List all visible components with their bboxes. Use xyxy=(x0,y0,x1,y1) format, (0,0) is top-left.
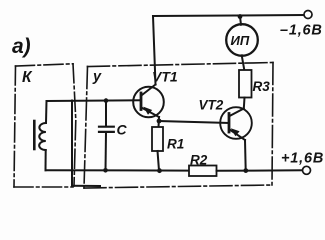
wire bottom rail left xyxy=(46,169,190,171)
node junction top xyxy=(238,14,243,19)
node capacitor bottom xyxy=(103,168,108,173)
box K dash-dot border xyxy=(14,64,76,187)
svg-text:+1,6В: +1,6В xyxy=(281,151,324,167)
terminal -1.6V xyxy=(304,11,312,19)
resistor R3 xyxy=(239,70,252,98)
wire R1 bottom xyxy=(158,151,160,171)
box U dash-dot border xyxy=(84,63,273,189)
transistor VT1 xyxy=(133,85,164,118)
wire bottom rail right xyxy=(217,169,303,172)
terminal +1.6V xyxy=(303,166,311,174)
svg-text:у: у xyxy=(92,69,102,85)
svg-text:R1: R1 xyxy=(167,137,184,152)
wire VT1 collector up xyxy=(153,16,156,85)
wire VT2 base from VT1 emitter xyxy=(159,121,229,123)
wire tank bottom run xyxy=(72,185,100,187)
svg-text:C: C xyxy=(117,122,128,138)
wire R3 to VT2 collector xyxy=(243,98,246,109)
wire meter to R3 xyxy=(242,55,245,70)
inductor core bar xyxy=(33,121,36,149)
resistor R2 xyxy=(189,166,217,177)
wire tank right side down xyxy=(71,101,73,186)
svg-text:а): а) xyxy=(12,35,31,58)
svg-text:–1,6В: –1,6В xyxy=(280,23,323,39)
wire top rail xyxy=(153,15,304,16)
wire tank top to VT1 base xyxy=(47,99,142,102)
resistor R1 xyxy=(152,127,163,151)
inductor L coil xyxy=(39,101,46,170)
node emitter junction xyxy=(243,168,248,173)
node VT1 emitter junction xyxy=(157,119,162,124)
svg-text:R3: R3 xyxy=(253,79,271,94)
svg-text:VT2: VT2 xyxy=(199,98,224,113)
capacitor C xyxy=(99,101,114,171)
svg-text:ИП: ИП xyxy=(231,33,250,48)
node capacitor top xyxy=(104,98,109,103)
wire VT1 emitter down to R1 xyxy=(158,117,161,127)
wire VT2 emitter down xyxy=(244,140,247,171)
wire meter top stub xyxy=(240,17,241,25)
transistor VT2 xyxy=(220,107,252,140)
meter IP xyxy=(226,24,258,56)
svg-text:К: К xyxy=(22,69,33,86)
svg-text:R2: R2 xyxy=(190,153,208,168)
node R1 bottom junction xyxy=(157,168,162,173)
